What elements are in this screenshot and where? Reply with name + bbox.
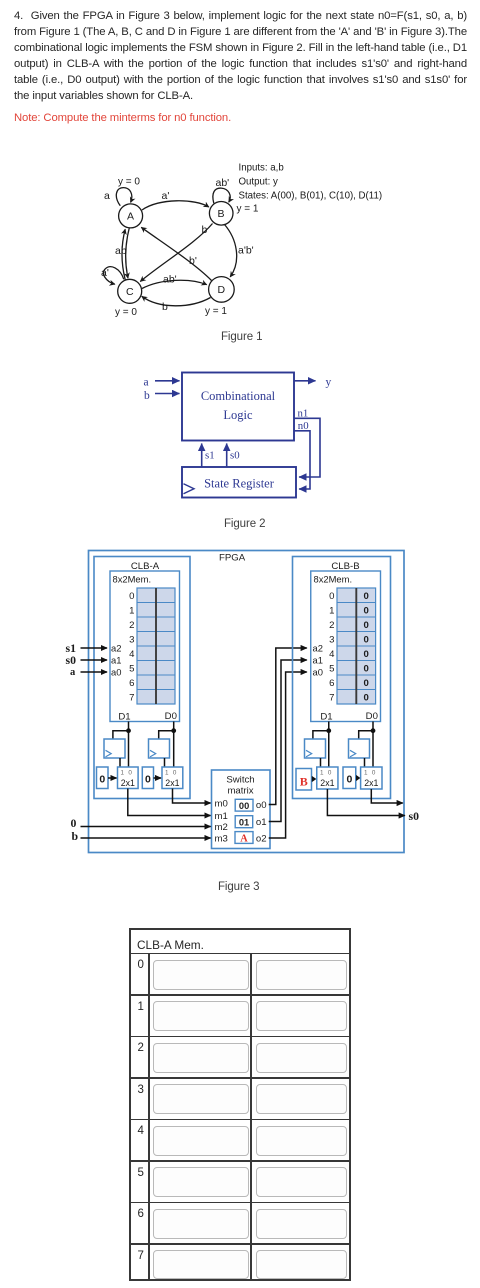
- svg-text:2x1: 2x1: [121, 778, 135, 788]
- state D: [209, 277, 235, 303]
- svg-text:A: A: [240, 833, 248, 844]
- svg-text:5: 5: [129, 663, 134, 674]
- svg-text:7: 7: [129, 692, 134, 703]
- svg-text:1: 1: [129, 605, 134, 616]
- svg-text:a0: a0: [111, 666, 121, 677]
- edge D to C (label b): [142, 296, 211, 305]
- svg-text:s0: s0: [230, 450, 240, 462]
- wire a to a0: [81, 671, 108, 673]
- svg-text:0: 0: [346, 774, 352, 786]
- svg-text:1: 1: [320, 770, 324, 777]
- svg-text:a'b': a'b': [238, 245, 254, 257]
- mux A1 2x1: [118, 767, 139, 789]
- svg-text:m3: m3: [215, 833, 228, 844]
- svg-text:s1: s1: [205, 450, 215, 462]
- CLB-A address pin labels a2 a1 a0: [111, 642, 121, 677]
- svg-text:y = 1: y = 1: [237, 204, 259, 215]
- wire mux A0 out to m0: [173, 789, 211, 804]
- svg-text:8x2Mem.: 8x2Mem.: [113, 573, 152, 584]
- svg-text:a1: a1: [111, 654, 121, 665]
- svg-text:FPGA: FPGA: [219, 553, 246, 564]
- svg-text:D0: D0: [366, 711, 378, 722]
- mux B0 2x1: [361, 767, 382, 789]
- figure 1: FSM state diagram: [0, 150, 480, 355]
- svg-text:A: A: [127, 211, 134, 223]
- wire input a: [155, 380, 180, 382]
- svg-text:0: 0: [364, 692, 369, 703]
- edge B to C (label b): [140, 224, 212, 282]
- wire o1 to a1 of CLB-B: [269, 660, 307, 822]
- wire mux B1 out to s0: [327, 789, 404, 816]
- svg-text:3: 3: [329, 634, 334, 645]
- config box A: [235, 832, 253, 844]
- CLB-B address pin labels a2 a1 a0: [313, 642, 323, 677]
- mux A0 2x1: [162, 767, 183, 789]
- svg-text:States: A(00), B(01), C(10), D: States: A(00), B(01), C(10), D(11): [239, 191, 383, 202]
- edge A to C (label ab): [126, 228, 130, 278]
- svg-text:0: 0: [364, 591, 369, 602]
- svg-text:2x1: 2x1: [364, 778, 378, 788]
- CLB-B memory block box: [311, 571, 381, 722]
- svg-text:s0: s0: [409, 809, 420, 823]
- svg-text:0: 0: [173, 770, 177, 777]
- wire output y: [294, 380, 316, 382]
- svg-text:ab': ab': [216, 177, 230, 189]
- svg-text:0: 0: [364, 678, 369, 689]
- svg-text:D1: D1: [320, 711, 332, 722]
- constant 0 box B0: [343, 767, 356, 789]
- svg-text:y = 1: y = 1: [205, 306, 227, 317]
- svg-text:a': a': [162, 190, 170, 202]
- figure 2: FSM block diagram: [0, 360, 480, 510]
- wire o2 to a0 of CLB-B: [269, 672, 307, 838]
- wire s1: [201, 444, 203, 468]
- svg-text:D0: D0: [165, 711, 177, 722]
- svg-text:m2: m2: [215, 822, 228, 833]
- svg-text:0: 0: [372, 770, 376, 777]
- FPGA outer box: [89, 551, 405, 853]
- svg-text:0: 0: [145, 774, 151, 786]
- svg-text:1: 1: [121, 770, 125, 777]
- edge A to B (label a'): [142, 201, 209, 210]
- svg-text:4: 4: [129, 649, 135, 660]
- svg-text:a: a: [104, 190, 110, 202]
- wire D1 to mux: [128, 722, 130, 768]
- wire input b: [155, 393, 180, 395]
- state C: [118, 279, 142, 303]
- wire D1 branch to flip-flop: [113, 731, 129, 739]
- input labels s1 s0 a: [66, 641, 77, 678]
- svg-text:0: 0: [364, 605, 369, 616]
- svg-text:0: 0: [364, 634, 369, 645]
- junction dot D0 (CLB-B): [371, 728, 376, 733]
- self-loop on B (label ab'): [213, 188, 230, 203]
- figure 3 caption: [218, 881, 259, 893]
- wire FF A1 out: [119, 758, 121, 767]
- svg-text:0: 0: [99, 774, 105, 786]
- svg-text:Output: y: Output: y: [239, 177, 278, 188]
- svg-text:2x1: 2x1: [165, 778, 179, 788]
- svg-text:y = 0: y = 0: [115, 307, 137, 318]
- svg-text:8x2Mem.: 8x2Mem.: [314, 573, 353, 584]
- junction dot D1: [126, 728, 131, 733]
- wire s1 to a2: [81, 647, 108, 649]
- svg-text:Switch: Switch: [226, 775, 254, 786]
- labels o0-o2: [256, 800, 267, 845]
- svg-text:b: b: [162, 301, 168, 313]
- edge D to A (label b'): [141, 227, 211, 280]
- mux B1 2x1: [317, 767, 338, 789]
- svg-text:y: y: [326, 376, 332, 388]
- problem statement paragraph: [14, 8, 467, 126]
- wire b to m3: [81, 837, 211, 839]
- svg-text:3: 3: [129, 634, 134, 645]
- CLB-B memory cell values (0s): [364, 591, 369, 704]
- svg-text:6: 6: [129, 678, 134, 689]
- state A: [119, 204, 143, 228]
- wire mux A1 out to m1: [128, 789, 211, 816]
- svg-text:a: a: [144, 377, 149, 389]
- svg-text:matrix: matrix: [227, 786, 253, 797]
- wire 0 to m2: [81, 826, 211, 828]
- wire o0 to a2 of CLB-B: [269, 648, 307, 805]
- svg-text:b: b: [144, 390, 150, 402]
- svg-text:0: 0: [328, 770, 332, 777]
- junction dot D0: [171, 728, 176, 733]
- svg-text:State Register: State Register: [204, 477, 275, 491]
- wire FF A0 out: [164, 758, 166, 767]
- svg-text:ab': ab': [163, 274, 177, 286]
- CLB-A box: [94, 557, 190, 799]
- CLB-A Mem. answer table: [129, 928, 351, 1281]
- figure 1 caption: [221, 331, 262, 343]
- wire D0 branch to flip-flop: [159, 731, 174, 739]
- wire B to mux B1: [312, 776, 317, 782]
- svg-text:o2: o2: [256, 834, 267, 845]
- svg-text:B: B: [300, 774, 308, 788]
- CLB-A memory row numbers: [129, 591, 135, 704]
- svg-text:o0: o0: [256, 800, 267, 811]
- svg-text:Logic: Logic: [223, 408, 253, 422]
- figure 3: FPGA diagram: [0, 540, 480, 870]
- svg-text:B: B: [218, 208, 225, 220]
- svg-text:D: D: [218, 284, 226, 296]
- constant 0 box A0: [142, 767, 153, 789]
- config box 01: [235, 816, 253, 828]
- svg-text:a: a: [70, 667, 76, 678]
- wire FF B1 out: [320, 758, 322, 767]
- wire D0 to mux (CLB-B): [372, 722, 374, 768]
- svg-text:4: 4: [329, 649, 335, 660]
- constant 0 box A1: [97, 767, 109, 789]
- svg-text:a2: a2: [111, 642, 121, 653]
- svg-text:Combinational: Combinational: [201, 389, 276, 403]
- svg-text:0: 0: [364, 663, 369, 674]
- svg-text:b': b': [189, 255, 197, 267]
- svg-text:a2: a2: [313, 642, 323, 653]
- figure 2 caption: [224, 518, 265, 530]
- CLB-A memory block box: [110, 571, 180, 722]
- self-loop on C (label a'): [104, 267, 124, 284]
- svg-text:D1: D1: [118, 711, 130, 722]
- wire FF B0 out: [364, 758, 366, 767]
- svg-text:6: 6: [329, 678, 334, 689]
- wire n0 feedback: [294, 431, 310, 489]
- wire D1 to mux (CLB-B): [328, 722, 330, 768]
- svg-text:C: C: [126, 286, 134, 298]
- CLB-B memory table: [337, 588, 376, 704]
- flip-flop A1: [104, 739, 125, 758]
- svg-text:1: 1: [364, 770, 368, 777]
- svg-text:a0: a0: [313, 666, 323, 677]
- svg-text:01: 01: [239, 818, 249, 828]
- svg-text:m1: m1: [215, 811, 228, 822]
- flip-flop B0: [349, 739, 370, 758]
- config box 00: [235, 799, 253, 811]
- wire s0 to a1: [81, 659, 108, 661]
- svg-text:0: 0: [128, 770, 132, 777]
- flip-flop B1: [305, 739, 326, 758]
- svg-text:a1: a1: [313, 654, 323, 665]
- svg-text:Inputs: a,b: Inputs: a,b: [239, 163, 284, 174]
- svg-text:0: 0: [364, 649, 369, 660]
- combinational logic box: [182, 373, 294, 441]
- wire 0 to mux B0: [356, 775, 360, 781]
- wire s0: [226, 444, 228, 468]
- wire D0 branch to flip-flop (CLB-B): [359, 731, 373, 739]
- svg-text:0: 0: [129, 591, 134, 602]
- svg-text:o1: o1: [256, 817, 267, 828]
- svg-text:n1: n1: [298, 407, 309, 419]
- svg-text:2: 2: [129, 620, 134, 631]
- wire D1 branch to flip-flop (CLB-B): [313, 731, 329, 739]
- self-loop on A (label a): [116, 188, 131, 206]
- edge C to A: [122, 229, 125, 279]
- edge B to D (label a'b'): [225, 225, 237, 277]
- svg-text:2: 2: [329, 620, 334, 631]
- wire 0 to mux A0: [154, 777, 162, 779]
- select box B: [296, 769, 312, 791]
- CLB-A memory table: [137, 588, 175, 704]
- svg-text:CLB-B: CLB-B: [331, 561, 359, 572]
- wire 0 to mux A1: [108, 777, 117, 779]
- svg-text:1: 1: [165, 770, 169, 777]
- CLB-B memory row numbers: [329, 591, 335, 704]
- svg-text:0: 0: [71, 816, 77, 830]
- labels m0-m3: [215, 799, 228, 845]
- svg-text:a': a': [101, 267, 109, 279]
- flip-flop A0: [149, 739, 170, 758]
- svg-text:b: b: [202, 224, 208, 236]
- edge C to D (label ab'): [142, 280, 207, 288]
- state register box: [182, 467, 296, 498]
- svg-text:5: 5: [329, 663, 334, 674]
- svg-text:2x1: 2x1: [320, 778, 334, 788]
- svg-text:7: 7: [329, 692, 334, 703]
- CLB-B box: [293, 557, 391, 799]
- state B: [209, 202, 233, 226]
- wire mux B0 out to FPGA edge: [371, 789, 403, 803]
- switch matrix box: [212, 770, 271, 849]
- svg-text:y = 0: y = 0: [118, 177, 140, 188]
- svg-text:n0: n0: [298, 420, 309, 432]
- clock triangle: [184, 484, 195, 494]
- svg-text:00: 00: [239, 801, 249, 811]
- wire n1 feedback: [294, 418, 320, 477]
- svg-text:ab: ab: [115, 245, 127, 257]
- wire D0 to mux: [173, 722, 175, 768]
- svg-text:m0: m0: [215, 799, 228, 810]
- junction dot D1 (CLB-B): [326, 728, 331, 733]
- svg-text:0: 0: [364, 620, 369, 631]
- svg-text:0: 0: [329, 591, 334, 602]
- svg-text:CLB-A: CLB-A: [131, 561, 160, 572]
- svg-text:b: b: [72, 829, 79, 843]
- svg-text:s0: s0: [66, 653, 77, 667]
- svg-text:1: 1: [329, 605, 334, 616]
